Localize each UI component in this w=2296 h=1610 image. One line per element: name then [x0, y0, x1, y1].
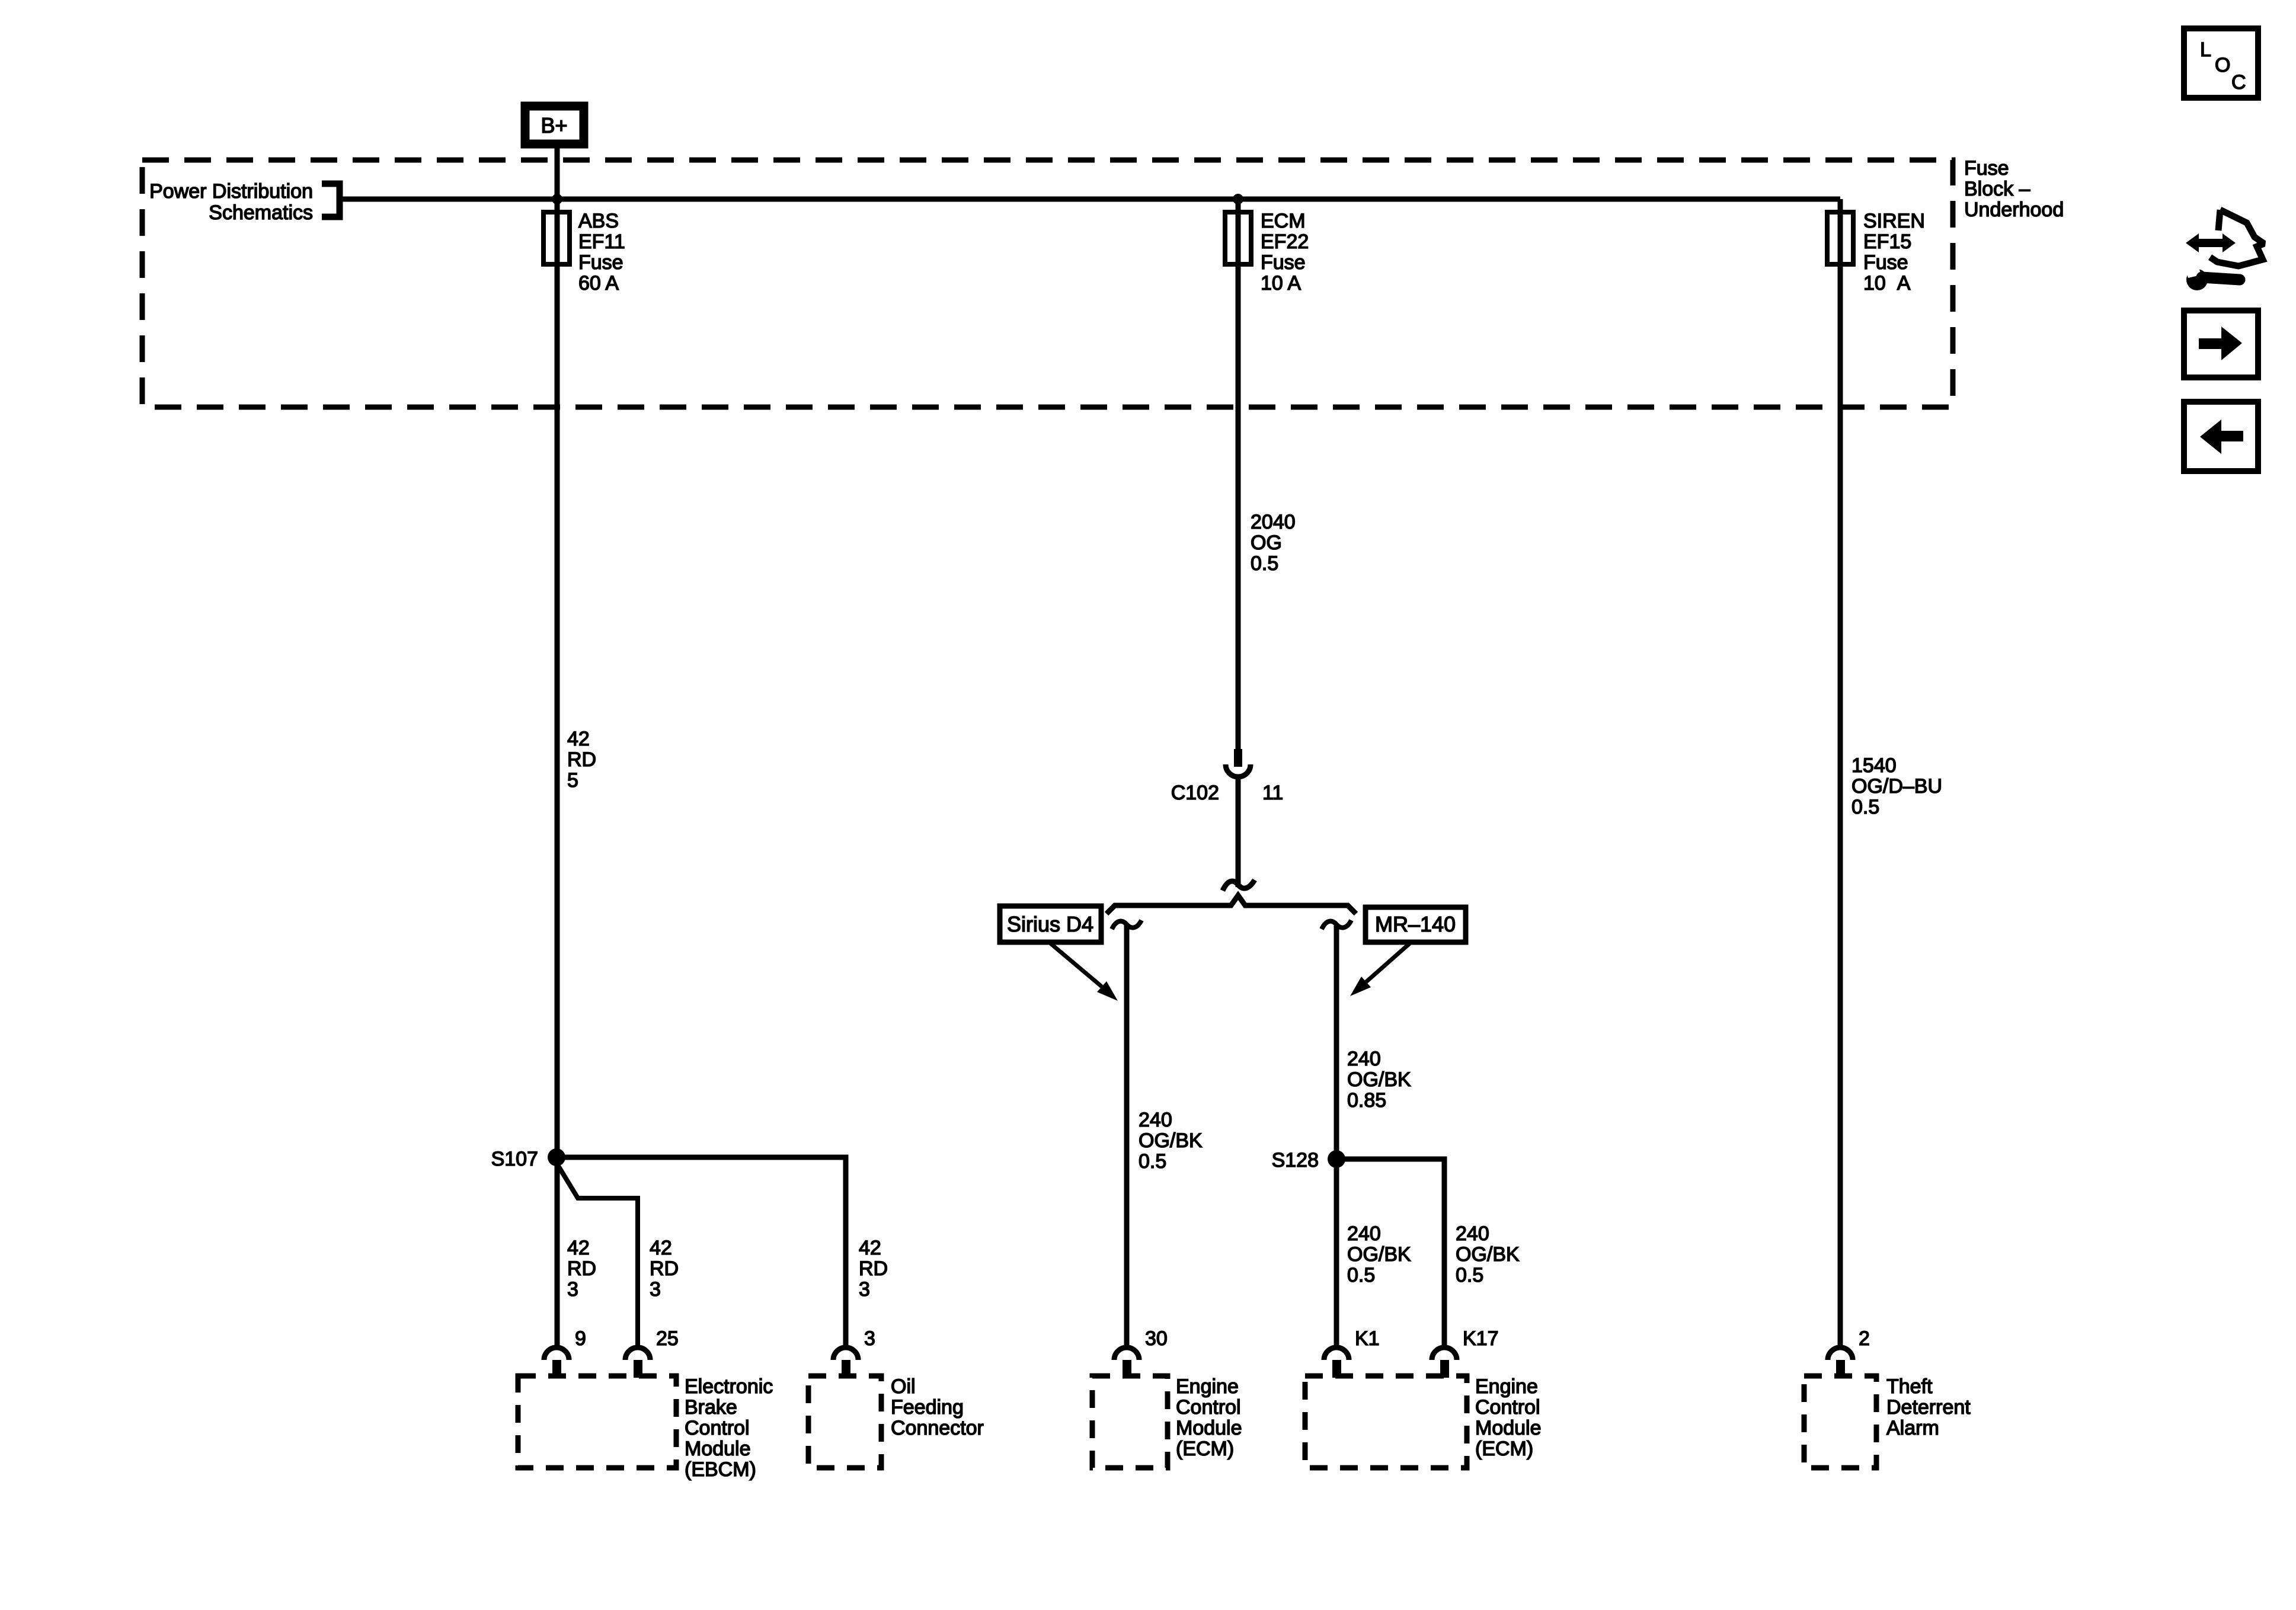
- svg-text:RD: RD: [650, 1257, 679, 1280]
- pin K17 connector: [1432, 1327, 1499, 1378]
- svg-text:Underhood: Underhood: [1964, 199, 2064, 221]
- svg-text:EF15: EF15: [1863, 231, 1911, 253]
- service icon wrench and arrows: [2183, 210, 2264, 290]
- svg-text:240: 240: [1139, 1109, 1172, 1131]
- svg-text:42: 42: [650, 1237, 672, 1259]
- wire start squiggle left branch: [1112, 920, 1141, 929]
- label wire 42 RD 5: [567, 728, 596, 792]
- forward arrow box: [2184, 311, 2258, 377]
- svg-text:K1: K1: [1355, 1327, 1380, 1350]
- battery feed B+: [525, 106, 584, 144]
- theft deterrent alarm dashed box: [1804, 1375, 1971, 1468]
- pin 30 connector: [1114, 1327, 1168, 1378]
- pin 9 connector: [544, 1327, 586, 1378]
- svg-text:(ECM): (ECM): [1176, 1438, 1234, 1460]
- label Fuse Block Underhood: [1964, 157, 2064, 221]
- svg-text:Control: Control: [1475, 1396, 1540, 1419]
- svg-text:EF11: EF11: [578, 231, 625, 253]
- fuse block underhood dashed box: [142, 160, 1953, 407]
- svg-text:3: 3: [864, 1327, 875, 1350]
- svg-text:MR–140: MR–140: [1375, 912, 1456, 936]
- wire SIREN vertical: [1838, 199, 1843, 1346]
- svg-text:25: 25: [656, 1327, 679, 1350]
- svg-text:0.5: 0.5: [1139, 1150, 1166, 1173]
- svg-text:C: C: [2231, 71, 2246, 94]
- svg-text:3: 3: [650, 1278, 661, 1301]
- svg-text:Theft: Theft: [1886, 1375, 1933, 1398]
- svg-text:OG/BK: OG/BK: [1139, 1129, 1203, 1152]
- wire Sirius branch vertical: [1124, 924, 1130, 1346]
- svg-text:Module: Module: [1176, 1417, 1242, 1439]
- wire MR-140 branch vertical: [1334, 924, 1339, 1346]
- connector C102 pin 11: [1171, 749, 1284, 887]
- svg-text:S107: S107: [491, 1148, 538, 1170]
- svg-text:Module: Module: [685, 1438, 751, 1460]
- svg-text:240: 240: [1347, 1048, 1381, 1070]
- svg-text:0.5: 0.5: [1851, 796, 1879, 818]
- pin K1 connector: [1324, 1327, 1380, 1378]
- svg-text:K17: K17: [1463, 1327, 1499, 1350]
- arrow from Sirius D4: [1049, 942, 1118, 1001]
- brace splice spread: [1107, 895, 1356, 914]
- svg-text:42: 42: [859, 1237, 881, 1259]
- svg-text:0.5: 0.5: [1456, 1264, 1483, 1286]
- wire S128 to ECM K17: [1336, 1159, 1444, 1346]
- svg-text:OG/D–BU: OG/D–BU: [1851, 775, 1942, 798]
- backward arrow box: [2184, 402, 2258, 471]
- svg-text:C102: C102: [1171, 782, 1219, 804]
- node junction at ABS fuse: [552, 194, 562, 204]
- svg-text:ECM: ECM: [1261, 210, 1306, 232]
- svg-text:Oil: Oil: [891, 1375, 916, 1398]
- svg-text:Feeding: Feeding: [891, 1396, 964, 1419]
- label wire 42 RD 3 first: [567, 1237, 596, 1301]
- svg-text:60 A: 60 A: [578, 272, 619, 295]
- svg-text:11: 11: [1262, 782, 1283, 804]
- svg-text:0.5: 0.5: [1251, 552, 1278, 575]
- svg-text:2: 2: [1859, 1327, 1870, 1350]
- splice S128: [1272, 1149, 1345, 1172]
- svg-text:0.5: 0.5: [1347, 1264, 1375, 1286]
- svg-text:Power Distribution: Power Distribution: [149, 180, 313, 203]
- label wire 42 RD 3 second: [650, 1237, 679, 1301]
- pin 25 connector: [625, 1327, 679, 1378]
- svg-text:5: 5: [567, 769, 578, 792]
- svg-text:B+: B+: [541, 113, 567, 137]
- svg-text:10 A: 10 A: [1261, 272, 1301, 295]
- svg-text:OG: OG: [1251, 532, 1282, 554]
- svg-text:42: 42: [567, 1237, 590, 1259]
- svg-text:42: 42: [567, 728, 590, 750]
- label wire 2040 OG 0.5: [1251, 511, 1296, 575]
- wire S107 to oil feeding connector: [557, 1157, 846, 1346]
- svg-text:O: O: [2215, 54, 2230, 76]
- fuse EF15 SIREN: [1827, 210, 1925, 295]
- oil feeding connector dashed box: [808, 1375, 984, 1468]
- bracket for power distribution tap: [322, 184, 340, 217]
- svg-text:Block –: Block –: [1964, 178, 2030, 200]
- svg-text:30: 30: [1145, 1327, 1168, 1350]
- pin 2 connector: [1828, 1327, 1870, 1378]
- label Power Distribution Schematics: [149, 180, 313, 224]
- splice S107: [491, 1148, 565, 1170]
- label wire 42 RD 3 third: [859, 1237, 888, 1301]
- EBCM dashed box: [518, 1375, 773, 1481]
- fuse EF11 ABS: [543, 210, 625, 295]
- LOC reference box: [2184, 28, 2258, 98]
- svg-text:Alarm: Alarm: [1886, 1417, 1939, 1439]
- svg-text:OG/BK: OG/BK: [1456, 1243, 1520, 1266]
- wire ABS vertical from B+: [555, 148, 560, 1346]
- svg-text:Engine: Engine: [1176, 1375, 1239, 1398]
- svg-text:Connector: Connector: [891, 1417, 984, 1439]
- svg-text:(EBCM): (EBCM): [685, 1458, 756, 1481]
- label wire 240 OG/BK 0.5 under S128 right: [1456, 1222, 1520, 1286]
- wire S107 diagonal to EBCM pin 25: [558, 1165, 638, 1346]
- svg-text:RD: RD: [567, 1257, 596, 1280]
- svg-text:240: 240: [1456, 1222, 1489, 1245]
- svg-text:Brake: Brake: [685, 1396, 737, 1419]
- label wire 240 OG/BK 0.85: [1347, 1048, 1411, 1112]
- svg-text:S128: S128: [1272, 1149, 1319, 1172]
- svg-text:3: 3: [567, 1278, 578, 1301]
- label box MR-140: [1366, 907, 1466, 942]
- svg-text:3: 3: [859, 1278, 870, 1301]
- wire bus B+ horizontal: [340, 197, 1840, 202]
- svg-text:0.85: 0.85: [1347, 1089, 1386, 1112]
- svg-text:ABS: ABS: [578, 210, 619, 232]
- ECM dashed box right: [1305, 1375, 1542, 1468]
- fuse EF22 ECM: [1225, 210, 1309, 295]
- label wire 240 OG/BK 0.5 left: [1139, 1109, 1203, 1173]
- svg-text:Fuse: Fuse: [578, 251, 623, 274]
- svg-text:Fuse: Fuse: [1863, 251, 1908, 274]
- node junction at ECM fuse: [1233, 194, 1243, 204]
- svg-text:Fuse: Fuse: [1964, 157, 2009, 180]
- svg-text:9: 9: [575, 1327, 586, 1350]
- svg-text:Fuse: Fuse: [1261, 251, 1306, 274]
- svg-text:L: L: [2200, 39, 2211, 61]
- svg-text:RD: RD: [859, 1257, 888, 1280]
- arrow from MR-140: [1350, 942, 1411, 996]
- svg-text:10 A: 10 A: [1863, 272, 1911, 295]
- svg-text:240: 240: [1347, 1222, 1381, 1245]
- svg-text:OG/BK: OG/BK: [1347, 1243, 1411, 1266]
- svg-text:1540: 1540: [1851, 754, 1897, 777]
- svg-text:Electronic: Electronic: [685, 1375, 773, 1398]
- svg-text:Deterrent: Deterrent: [1886, 1396, 1971, 1419]
- pin 3 connector: [833, 1327, 875, 1378]
- svg-text:SIREN: SIREN: [1863, 210, 1925, 232]
- svg-text:Engine: Engine: [1475, 1375, 1538, 1398]
- svg-text:(ECM): (ECM): [1475, 1438, 1533, 1460]
- label wire 240 OG/BK 0.5 under S128 left: [1347, 1222, 1411, 1286]
- wire ECM vertical: [1236, 199, 1241, 749]
- svg-text:Module: Module: [1475, 1417, 1542, 1439]
- svg-text:Sirius D4: Sirius D4: [1007, 912, 1093, 936]
- ECM dashed box left: [1092, 1375, 1242, 1468]
- label wire 1540 OG/D-BU 0.5: [1851, 754, 1942, 818]
- wire break symbol above brace: [1223, 880, 1255, 891]
- svg-text:OG/BK: OG/BK: [1347, 1068, 1411, 1091]
- svg-text:Schematics: Schematics: [209, 201, 313, 224]
- svg-text:Control: Control: [685, 1417, 750, 1439]
- wire start squiggle right branch: [1322, 920, 1351, 929]
- svg-text:RD: RD: [567, 748, 596, 771]
- svg-text:2040: 2040: [1251, 511, 1296, 533]
- svg-text:Control: Control: [1176, 1396, 1241, 1419]
- svg-text:EF22: EF22: [1261, 231, 1309, 253]
- label box Sirius D4: [1000, 906, 1101, 942]
